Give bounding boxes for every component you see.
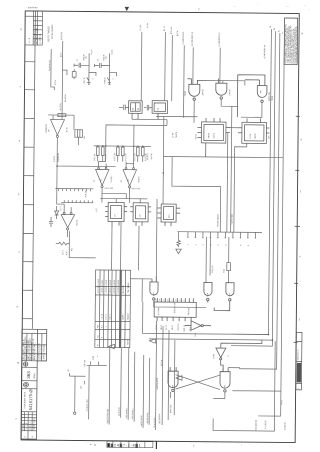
designator U2 — [259, 91, 274, 101]
svg-text:+SEL RATE 1: +SEL RATE 1 — [125, 408, 128, 419]
svg-text:7: 7 — [171, 300, 173, 301]
svg-text:C2 (P2)-L OSC: C2 (P2)-L OSC — [87, 399, 89, 412]
svg-text:- .. -: - .. - — [286, 6, 289, 8]
IC U19 — [154, 298, 196, 321]
designator U15b — [213, 353, 230, 358]
svg-text:26: 26 — [270, 26, 272, 28]
svg-text:5416175-A30 SEL: 5416175-A30 SEL — [106, 409, 109, 424]
svg-text:U14: U14 — [153, 293, 155, 296]
wire bus pair lower — [143, 302, 273, 340]
nand gate U10b — [216, 79, 227, 100]
wire net x163 vertical — [162, 116, 165, 204]
stamp tick right — [155, 441, 157, 449]
svg-text:A LOAD ADRS [1]: A LOAD ADRS [1] — [191, 31, 194, 46]
svg-text:CLK Q: CLK Q — [213, 133, 215, 139]
svg-text:U19 DAC-08: U19 DAC-08 — [173, 303, 176, 313]
wire net B-RO long — [62, 41, 67, 115]
svg-text:U12 6: U12 6 — [112, 50, 114, 55]
svg-text:ADRS: ADRS — [121, 314, 124, 320]
svg-text:NOTES: UNLESS: NOTES: UNLESS — [52, 24, 54, 39]
notes box text lines — [284, 24, 298, 64]
svg-text:1/2 U1: 1/2 U1 — [250, 134, 252, 139]
svg-text:0 1: 0 1 — [101, 325, 103, 328]
right strip text — [296, 349, 302, 389]
svg-text:0.8 MS C 4.0 MS: 0.8 MS C 4.0 MS — [110, 279, 112, 293]
svg-text:R10 2.2K: R10 2.2K — [114, 152, 116, 160]
revision table top-left — [25, 11, 43, 45]
left inner zone line — [32, 11, 35, 329]
zone tick marks right border — [294, 116, 301, 342]
svg-text:APPR 8-3 SM DES: APPR 8-3 SM DES — [43, 343, 46, 359]
capacitor C10 input U9 — [144, 105, 152, 111]
notes box top-right — [284, 18, 297, 65]
net label squelch tuned — [54, 153, 60, 163]
wire U14a feeds — [130, 199, 157, 302]
svg-text:R36: R36 — [224, 269, 226, 272]
svg-text:+SEL RATE 2: +SEL RATE 2 — [131, 409, 134, 420]
svg-text:A . . B: A . . B — [28, 37, 31, 43]
svg-text:1: 1 — [183, 300, 185, 301]
svg-text:U13: U13 — [169, 215, 171, 218]
svg-text:R12 2.2K: R12 2.2K — [134, 152, 136, 160]
svg-text:. 1 . 1 . 8: . 1 . 1 . 8 — [26, 423, 28, 430]
IC U3 dual box — [197, 118, 230, 157]
wire U5 output — [57, 137, 116, 166]
svg-text:R34 1K: R34 1K — [104, 77, 106, 84]
resistor R27 — [72, 69, 76, 79]
svg-text:ENT 10: ENT 10 — [184, 325, 186, 331]
resistor R20 zigzag — [177, 232, 181, 248]
svg-text:0.2 MS E 6.4 MS: 0.2 MS E 6.4 MS — [118, 279, 120, 293]
svg-text:DATA CLK: DATA CLK — [169, 404, 172, 413]
net label drop 6 — [140, 415, 143, 427]
nand gate U10a — [187, 79, 200, 101]
designator U4b — [121, 176, 141, 183]
svg-text:B RO: B RO — [61, 52, 63, 57]
title block size text — [26, 371, 36, 379]
open arrow mark latch — [176, 376, 182, 381]
svg-text:U3: U3 — [100, 179, 102, 181]
wire signal drop 4 — [127, 348, 130, 420]
svg-text:OLD DATA A: OLD DATA A — [158, 413, 161, 424]
wire net WL-PA — [51, 49, 55, 90]
svg-text:+5V RTN: +5V RTN — [60, 103, 62, 111]
designator U16b — [224, 385, 226, 388]
nand gate U14c — [214, 283, 234, 311]
svg-text:77: 77 — [283, 32, 285, 34]
svg-text:ADRS SEL: ADRS SEL — [268, 92, 271, 101]
svg-text:-WRITE DATA: -WRITE DATA — [140, 415, 143, 427]
zone labels left edge — [15, 29, 22, 421]
resistor R12 — [136, 146, 139, 162]
svg-text:1: 1 — [188, 244, 190, 245]
zone labels bottom edge — [94, 444, 195, 447]
svg-text:U9: U9 — [158, 108, 160, 110]
wire signal drop 9 — [161, 326, 164, 425]
stamp text — [107, 442, 141, 448]
svg-text:C1: C1 — [77, 59, 79, 61]
svg-text:B1 +5: B1 +5 — [164, 26, 166, 31]
svg-text:SHEET 2 OF 2: SHEET 2 OF 2 — [34, 418, 36, 430]
inverter U15a — [185, 321, 211, 331]
resistor R11 — [121, 146, 124, 162]
svg-text:QB 13: QB 13 — [161, 325, 163, 330]
svg-text:B2 (P2)-N: B2 (P2)-N — [119, 407, 121, 416]
capacitor C7 network — [74, 115, 83, 145]
net label bus top — [263, 26, 285, 59]
right edge title strip — [296, 332, 302, 390]
svg-text:[1] ADRS DATA: [1] ADRS DATA — [182, 31, 185, 44]
title block part number — [24, 389, 33, 411]
net label drop 11 — [169, 404, 172, 413]
plus mark below table — [97, 356, 100, 358]
wire signal drops top-center — [165, 32, 221, 117]
svg-text:11-4 832 4-8: 11-4 832 4-8 — [40, 34, 42, 44]
resistor R13 — [141, 146, 144, 162]
nand gate U16a latch — [168, 367, 178, 391]
svg-text:U14: U14 — [207, 293, 209, 296]
wire U3 right pins — [226, 106, 247, 232]
svg-text:SEL RATE: SEL RATE — [122, 284, 125, 293]
wire net y173 — [163, 157, 283, 233]
open arrow mark drop2 — [108, 344, 114, 348]
net label drop 4 — [125, 408, 128, 419]
svg-text:+GATE TIME: +GATE TIME — [231, 213, 234, 224]
value label R8 R9 — [94, 153, 107, 160]
svg-text:U8: U8 — [138, 108, 140, 110]
resistor ladder pins — [188, 232, 256, 237]
svg-text:6: 6 — [225, 245, 227, 246]
resistor R9 — [101, 145, 104, 161]
svg-text:(P2)-L: (P2)-L — [55, 80, 57, 85]
svg-text:20 2.0 MS 1.0 MS: 20 2.0 MS 1.0 MS — [98, 278, 100, 293]
nand gate U2 — [237, 75, 267, 118]
svg-text:U16: U16 — [172, 385, 174, 388]
svg-text:1/2 U7 123: 1/2 U7 123 — [104, 188, 113, 190]
wire signal drop 8 — [156, 321, 157, 430]
svg-text:2: 2 — [92, 78, 94, 79]
svg-text:D5 (P2): D5 (P2) — [147, 153, 149, 160]
wire big box right — [213, 341, 275, 432]
capacitor C1 — [74, 63, 89, 68]
net label drop 3 — [119, 407, 121, 416]
svg-text:A-2 (P2)-B: A-2 (P2)-B — [264, 420, 267, 429]
svg-text:SQUELCH: SQUELCH — [58, 153, 60, 162]
svg-text:22 (P2)-B: 22 (P2)-B — [285, 422, 287, 430]
net label rail — [84, 135, 86, 139]
svg-text:6: 6 — [167, 300, 169, 301]
signal table center — [95, 270, 131, 348]
svg-text:R35 150: R35 150 — [212, 266, 214, 273]
svg-text:74S04: 74S04 — [272, 96, 274, 101]
svg-text:SCALE - - -: SCALE - - - — [22, 420, 25, 430]
svg-text:NOTE: NOTE — [127, 339, 129, 345]
svg-text:8(-P2) WL: 8(-P2) WL — [61, 32, 63, 40]
svg-text:9: 9 — [248, 245, 250, 246]
designator U4a — [93, 176, 113, 183]
svg-text:133: 133 — [80, 386, 82, 389]
svg-text:74S00: 74S00 — [185, 91, 187, 96]
capacitor C9 input U8 — [119, 105, 129, 111]
designator U14a — [153, 293, 155, 296]
wire squelch to U6 — [57, 166, 65, 204]
svg-text:B RTN: B RTN — [177, 30, 179, 36]
wire pull-up rail bottom-left — [87, 361, 107, 365]
svg-text:41: 41 — [278, 30, 280, 32]
designator U8 — [133, 108, 160, 111]
svg-text:RTN +5V: RTN +5V — [171, 26, 173, 34]
svg-text:1.2 MS B 3.2 MS: 1.2 MS B 3.2 MS — [106, 279, 108, 293]
svg-text:R17: R17 — [96, 208, 98, 211]
ground arrow R20 — [176, 249, 182, 254]
title block lower cells text — [21, 418, 35, 438]
net label rail bottom — [84, 356, 95, 367]
svg-text:9: 9 — [175, 300, 177, 301]
IC U7b latch — [130, 203, 151, 226]
svg-text:U7: U7 — [115, 214, 117, 216]
revision table text — [28, 27, 42, 44]
open arrow mark drop7 — [149, 339, 155, 343]
svg-text:C6 (P2): C6 (P2) — [138, 176, 140, 183]
shield comb lower — [61, 200, 93, 203]
wire signal drop 11 — [173, 340, 176, 415]
designator U5 labels — [46, 123, 69, 133]
svg-text:3: 3 — [203, 244, 205, 245]
designator U14c — [229, 293, 231, 296]
svg-text:74LS163: 74LS163 — [188, 308, 190, 315]
svg-text:SH 2 OF 2: SH 2 OF 2 — [300, 373, 302, 382]
svg-text:2: 2 — [179, 300, 181, 301]
designator U16a — [172, 385, 174, 388]
svg-text:M: M — [17, 363, 19, 365]
svg-text:5: 5 — [218, 245, 220, 246]
notes label right of revision table — [48, 24, 54, 42]
svg-text:R40: R40 — [93, 356, 95, 359]
svg-text:TP A1-A2 P3: TP A1-A2 P3 — [153, 418, 156, 428]
resistor R21 zigzag — [56, 242, 70, 245]
zone labels top edge — [28, 3, 290, 12]
wire test point T1 — [69, 373, 85, 414]
svg-text:U7: U7 — [140, 214, 142, 216]
wire U6 output to table — [69, 231, 96, 258]
designator U15a — [195, 333, 197, 336]
svg-text:C15 .1: C15 .1 — [62, 250, 64, 255]
svg-text:8-25-83 RD: 8-25-83 RD — [28, 7, 38, 9]
svg-text:QD 11: QD 11 — [172, 325, 174, 330]
svg-text:2/4 U10: 2/4 U10 — [202, 89, 204, 95]
resistor R10 — [116, 146, 119, 162]
svg-text:R16 10K: R16 10K — [85, 189, 87, 197]
svg-text:RCO 15: RCO 15 — [178, 324, 180, 331]
svg-text:+5V U6: +5V U6 — [76, 220, 78, 226]
nand gate U16b latch — [220, 368, 230, 392]
value label R29 — [83, 53, 115, 83]
svg-text:5416175-0 .A: 5416175-0 .A — [297, 349, 300, 361]
svg-text:8 3 8 3 . 1: 8 3 8 3 . 1 — [30, 422, 32, 430]
svg-text:2/2 U7 123: 2/2 U7 123 — [131, 188, 140, 190]
svg-text:2/2 U3: 2/2 U3 — [196, 134, 198, 139]
title block cell tick rows — [21, 415, 37, 428]
designator U19 — [158, 303, 190, 316]
svg-text:1/2 U3: 1/2 U3 — [172, 133, 174, 138]
svg-text:REV'D TWRED: REV'D TWRED — [48, 26, 50, 42]
top border arrow mark — [125, 7, 130, 11]
svg-text:R8 2.2K: R8 2.2K — [94, 153, 96, 160]
svg-text:C13 .1: C13 .1 — [60, 206, 62, 211]
svg-text:+READ GATE: +READ GATE — [146, 412, 149, 424]
svg-text:. .. -: . .. - — [303, 5, 306, 7]
wire signal drop 2 — [108, 348, 111, 425]
wire gate outputs — [156, 80, 245, 123]
resistor R8 — [96, 145, 99, 161]
wire FF outputs bus — [132, 119, 167, 125]
signal table cell text — [96, 278, 130, 346]
application stamp row bottom — [107, 441, 153, 447]
IC U13 — [157, 204, 180, 226]
svg-text:4: 4 — [159, 299, 161, 300]
title block logo symbol — [23, 362, 27, 366]
designator U6 — [60, 206, 79, 226]
svg-text:2/2: 2/2 — [121, 180, 123, 183]
right strip dark block — [297, 363, 301, 383]
svg-text:R1 1K: R1 1K — [66, 126, 68, 132]
svg-text:5416175-Ø: 5416175-Ø — [28, 389, 33, 411]
capacitor C2 — [95, 63, 110, 68]
value label R10 R11 — [114, 152, 127, 160]
svg-text:R31 1K: R31 1K — [84, 76, 86, 83]
stamp marks small — [60, 437, 243, 447]
net label drop 7 — [146, 412, 149, 424]
designator U13 — [168, 213, 233, 227]
svg-text:0 1 0 1: 0 1 0 1 — [106, 314, 108, 319]
svg-text:4: 4 — [228, 356, 230, 357]
zone divider ticks left column — [22, 62, 35, 319]
net label drop 1 — [87, 399, 89, 412]
svg-text:8 COUNT: 8 COUNT — [158, 306, 160, 315]
designator U10a — [185, 89, 205, 96]
svg-text:WL-PA 8(-P2): WL-PA 8(-P2) — [48, 60, 51, 71]
value label C1 C2 — [77, 49, 114, 61]
svg-text:C2 +5V: C2 +5V — [140, 24, 142, 31]
resistor R1 — [58, 114, 66, 117]
IC U7a latch — [105, 202, 127, 225]
wire bus line 2 — [231, 31, 276, 346]
svg-text:74LS74: 74LS74 — [176, 132, 178, 138]
svg-text:PULSE WIDTH: PULSE WIDTH — [217, 213, 219, 226]
wire bottom-right horizontals — [258, 391, 281, 416]
diode CR1 — [55, 206, 59, 219]
svg-text:+WRITE GATE: +WRITE GATE — [156, 377, 159, 390]
svg-text:1 2 3 4: 1 2 3 4 — [102, 314, 104, 319]
pin labels U19 bottom — [155, 323, 192, 331]
designator U3 — [147, 132, 215, 161]
svg-text:2: 2 — [113, 79, 115, 80]
svg-text:0.4 MS D 5.6 MS: 0.4 MS D 5.6 MS — [114, 279, 116, 293]
svg-text:1/4 U10: 1/4 U10 — [229, 89, 231, 95]
svg-text:C2: C2 — [97, 59, 99, 61]
designator U1 — [250, 134, 271, 139]
designator U7a — [115, 214, 117, 216]
svg-text:TBL TIMING: TBL TIMING — [128, 282, 130, 293]
net label drop 5 — [131, 409, 134, 420]
svg-text:B +5V: B +5V — [147, 22, 149, 28]
svg-text:A +ADDRESS [1]: A +ADDRESS [1] — [218, 32, 221, 46]
svg-text:+5 RTN: +5 RTN — [151, 153, 153, 160]
svg-text:363: 363 — [26, 371, 31, 379]
IC U8 flipflop — [129, 101, 143, 120]
svg-text:DA-L3 PA: DA-L3 PA — [64, 93, 67, 102]
svg-text:3: 3 — [155, 299, 157, 300]
title block bottom-left outer box — [21, 329, 47, 439]
designator U10b — [229, 89, 231, 95]
value label R35 — [212, 266, 226, 273]
svg-text:U8: U8 — [133, 108, 135, 110]
svg-text:SELECT: SELECT — [128, 312, 130, 320]
value label R21 — [62, 248, 73, 255]
title block logo circle row — [24, 382, 29, 387]
svg-text:CODE IDENT 96214: CODE IDENT 96214 — [24, 392, 26, 409]
wire signal drop 6 — [142, 355, 145, 428]
wire signal drop 3 — [120, 348, 123, 418]
designator U7b — [140, 214, 142, 216]
svg-text:1/2: 1/2 — [93, 180, 95, 183]
nand gate U14b — [204, 282, 212, 302]
wire signal drop 1 — [88, 365, 91, 419]
svg-text:74S74: 74S74 — [255, 134, 257, 139]
title block logic notes text — [23, 336, 46, 360]
wire bus line 3 — [240, 33, 280, 369]
wire signal drop 5 — [133, 352, 136, 422]
svg-text:74S74: 74S74 — [208, 133, 210, 138]
wire cross couple U16 — [171, 367, 240, 399]
svg-text:U5: U5 — [48, 130, 50, 132]
svg-text:U12 8: U12 8 — [91, 50, 93, 55]
svg-text:A4: A4 — [259, 91, 262, 93]
nand gate U14a — [150, 276, 158, 300]
transistor Q2 — [107, 53, 116, 84]
wire +5V long vertical C2 net — [140, 32, 143, 101]
op-amp U4a — [95, 161, 109, 202]
svg-text:7. FOR SCHEM SEE 5416175 ASSY: 7. FOR SCHEM SEE 5416175 ASSY 5416170 — [295, 26, 298, 63]
svg-text:3(-P2)-L: 3(-P2)-L — [54, 155, 56, 162]
svg-text:C5 (P2): C5 (P2) — [111, 176, 113, 183]
designator U14b — [207, 293, 209, 296]
wire bus line 4 — [232, 35, 284, 391]
svg-text:REV 832 4-8 11-4 B: REV 832 4-8 11-4 B — [36, 27, 38, 44]
shield comb upper — [55, 188, 93, 191]
svg-text:SIZE D: SIZE D — [34, 372, 36, 378]
svg-text:QC 12: QC 12 — [166, 325, 168, 330]
transistor Q1 — [87, 53, 96, 84]
svg-text:U16: U16 — [224, 385, 226, 388]
value label R12 R13 — [134, 152, 147, 160]
wire signal drop 7 — [148, 358, 151, 425]
pin labels U19 top — [155, 299, 185, 300]
svg-text:R11 2.2K: R11 2.2K — [125, 153, 127, 161]
inverter U15b — [216, 340, 262, 372]
designator labels above U7 row — [104, 188, 140, 190]
scan smudge top-right corner — [257, 3, 310, 11]
svg-text:- 1: - 1 — [105, 326, 107, 328]
wire ladder drops — [206, 237, 229, 283]
resistor ladder pin dots — [187, 237, 256, 239]
svg-text:MATL NOTED . FIN . .: MATL NOTED . FIN . . — [33, 342, 36, 360]
value label R16 — [85, 189, 98, 211]
wire U14a output — [154, 300, 207, 307]
wire U7 outputs down — [112, 221, 139, 270]
svg-text:R21: R21 — [71, 248, 73, 251]
op-amp U4b — [123, 162, 137, 203]
